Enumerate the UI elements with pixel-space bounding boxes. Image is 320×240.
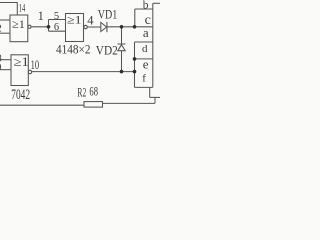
resistor R2 body [84, 102, 103, 108]
diode VD1 triangle [101, 22, 107, 31]
wire to pin 6 [49, 30, 66, 32]
wire segment f bottom row [135, 86, 153, 88]
wire segment d/e row [135, 58, 153, 60]
node dot splitter [47, 25, 51, 29]
wire input pin 8 of gate D3 [0, 59, 11, 61]
wire common drop from f row [149, 87, 151, 97]
node dot c row [133, 25, 137, 29]
wire bottom bus left of R2 [0, 104, 84, 106]
output bubble of D1 [28, 25, 31, 28]
svg-text:10: 10 [31, 58, 39, 72]
output bubble of D2 [84, 25, 87, 28]
wire common stub right [150, 96, 160, 98]
svg-text:VD1: VD1 [98, 8, 118, 22]
diode VD2 cathode bar [118, 43, 126, 45]
svg-text:e: e [143, 57, 149, 72]
or-gate D1 box [10, 15, 28, 42]
svg-text:6: 6 [54, 22, 59, 33]
svg-text:≥1: ≥1 [12, 17, 25, 31]
svg-text:VD2: VD2 [96, 44, 118, 58]
svg-text:d: d [142, 43, 148, 55]
wire vertical b to c [134, 9, 136, 27]
diode VD2 triangle [118, 45, 125, 51]
node dot bus end [133, 70, 137, 74]
wire input pin 2 of gate D1 [0, 32, 10, 34]
wire top feedback loop into gate D1 top [0, 3, 17, 16]
wire input pin 9 of gate D3 [0, 69, 11, 71]
svg-text:4148×2: 4148×2 [56, 41, 91, 56]
wire display box left edge [152, 3, 154, 87]
svg-text:68: 68 [89, 84, 98, 99]
wire segment a row [135, 41, 153, 43]
node dot VD2 branch [120, 25, 124, 29]
diode VD1 cathode bar [106, 22, 108, 32]
node dot VD2 anode [120, 70, 124, 74]
svg-text:14: 14 [19, 1, 26, 15]
svg-text:R2: R2 [77, 85, 86, 99]
wire VD1 cathode to segment bus [107, 26, 153, 28]
wire output of D2 to VD1 [87, 26, 101, 28]
svg-text:≥1: ≥1 [14, 55, 29, 69]
svg-text:≥1: ≥1 [67, 14, 82, 26]
wire vertical a-d-e-f [134, 42, 136, 87]
wire VD2 anode down to bus [121, 51, 123, 72]
wire output of D1 to node [31, 26, 48, 28]
wire bottom bus right of R2 [103, 102, 156, 104]
svg-text:2: 2 [0, 23, 2, 34]
svg-text:5: 5 [54, 11, 59, 22]
svg-text:9: 9 [0, 63, 1, 74]
node dot e row [133, 57, 137, 61]
svg-text:4: 4 [87, 13, 94, 27]
wire output of D3 bus to segments [32, 71, 135, 73]
svg-text:f: f [142, 72, 146, 84]
wire to pin 5 [49, 19, 66, 21]
or-gate D2 box [66, 14, 84, 42]
wire segment b row [135, 8, 153, 10]
svg-text:a: a [143, 25, 149, 40]
wire input pin 1 of gate D1 [0, 19, 10, 21]
wire VD2 cathode up to node [121, 27, 123, 44]
or-gate D3 box [11, 55, 28, 86]
svg-text:b: b [143, 0, 149, 11]
wire top stub to display [153, 2, 160, 4]
svg-text:1: 1 [38, 9, 44, 23]
output bubble of D3 [28, 70, 31, 73]
wire splitter vertical at node [48, 20, 50, 32]
svg-text:7042: 7042 [11, 87, 30, 103]
wire common link vertical [154, 97, 156, 103]
